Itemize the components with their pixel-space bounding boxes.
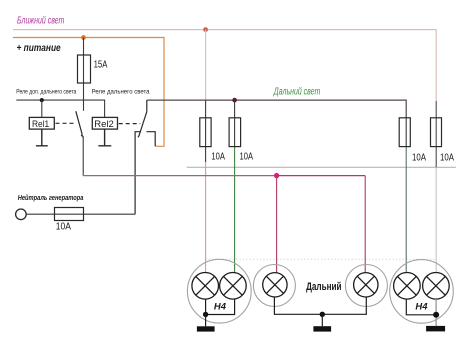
wire: supply bus + питание: [13, 38, 164, 147]
ground: right headlight: [426, 326, 445, 332]
node: low-beam tap: [203, 27, 208, 32]
svg-text:10A: 10A: [440, 152, 454, 163]
wire: light grey to right headlight low-beam: [435, 167, 437, 272]
relay Rel2: [92, 117, 117, 129]
wire: relay coil bus: [16, 100, 104, 117]
svg-text:Нейтраль генератора: Нейтраль генератора: [18, 193, 84, 202]
svg-text:+ питание: + питание: [17, 43, 62, 54]
svg-text:10A: 10A: [240, 151, 254, 162]
wire: low-beam drop to fuse F2: [205, 30, 207, 100]
fuse F6 10A horizontal: [55, 208, 84, 221]
node: aux lamp tap: [274, 173, 279, 178]
terminal: generator neutral: [16, 209, 27, 220]
switch S2 top contact: [146, 100, 148, 112]
svg-text:Rel1: Rel1: [32, 119, 49, 130]
wire: coil feed Rel1: [41, 100, 43, 117]
svg-text:15A: 15A: [94, 59, 108, 70]
right headlight housing: [390, 260, 454, 324]
wire: grey rail: [187, 166, 456, 168]
ground: left headlight: [197, 315, 215, 332]
wire: fused high-beam rail: [83, 175, 276, 177]
lamp: right high-beam filament: [394, 273, 421, 300]
wire: dotted lamp tie line: [206, 258, 437, 260]
svg-text:Реле доп. дальнего света: Реле доп. дальнего света: [16, 89, 76, 96]
wire: fuse F2 lead: [205, 100, 207, 162]
ground: Rel2 coil: [98, 129, 111, 146]
node: high-beam bus tap: [232, 98, 237, 103]
wire: low-beam bus Ближний свет: [13, 30, 436, 101]
fuse F4 10A: [399, 118, 410, 147]
node: aux ground tap: [320, 312, 325, 317]
node: left headlight ground tap: [203, 312, 208, 317]
wire: supply to fuse F1 and switch S1 top contact: [83, 38, 85, 111]
wire: aux lamps common: [274, 297, 366, 314]
node: right headlight ground tap: [433, 312, 439, 318]
relay Rel1: [29, 117, 54, 129]
ground: aux lamps: [313, 314, 331, 331]
switch S2 left contact and leg to neutral: [135, 132, 141, 215]
wire: S1 output: [82, 137, 84, 176]
svg-text:Дальний свет: Дальний свет: [273, 86, 320, 97]
svg-text:10A: 10A: [211, 151, 225, 162]
wire: right headlight common: [406, 299, 436, 315]
svg-text:H4: H4: [415, 302, 428, 313]
svg-text:10A: 10A: [412, 152, 426, 163]
fuse F3 10A: [229, 118, 241, 147]
lamp: aux right high-beam: [354, 273, 378, 297]
wire: neutral line: [26, 213, 135, 215]
ground: Rel1 coil: [36, 129, 48, 146]
lamp: aux left high-beam: [263, 273, 287, 297]
wire: right lamp to ground tap: [435, 299, 437, 326]
lamp: left high-beam filament: [220, 273, 247, 300]
wire: left headlight common: [206, 299, 235, 314]
wire: lead to fuse F5: [435, 101, 437, 167]
fuse F1 15A: [78, 55, 91, 83]
dashed link Rel1 to S1: [56, 122, 76, 124]
svg-text:H4: H4: [214, 301, 227, 312]
fuse F5 10A: [431, 118, 442, 147]
aux lamp left housing: [253, 265, 295, 307]
node: supply tap: [81, 35, 86, 40]
wire: grey-green to right headlight high-beam: [405, 147, 407, 273]
svg-text:Rel2: Rel2: [94, 119, 114, 130]
wire: high-beam bus Дальний свет: [147, 100, 406, 118]
left headlight housing: [187, 259, 251, 323]
wire: lead to fuse F4: [405, 118, 407, 147]
aux lamp right housing: [345, 265, 387, 307]
switch S1 blade: [76, 111, 83, 138]
switch S2 blade: [138, 112, 147, 138]
wire: to aux lamp right: [364, 176, 366, 273]
lamp: left low-beam filament: [192, 273, 219, 300]
wire: green wire to left headlight high-beam: [234, 147, 236, 273]
wire: rose wire to left headlight low-beam: [205, 162, 207, 273]
svg-text:Дальний: Дальний: [306, 281, 341, 293]
svg-text:Реле дальнего света: Реле дальнего света: [92, 89, 150, 96]
wire: lead to fuse F3: [234, 100, 236, 147]
svg-text:Ближний свет: Ближний свет: [17, 16, 64, 27]
fuse F2 10A: [200, 118, 211, 147]
wire: to aux lamp left: [276, 176, 278, 273]
switch S2 right contact leg: [147, 132, 156, 147]
dashed link Rel2 to S2: [119, 123, 141, 125]
svg-text:10A: 10A: [56, 220, 71, 232]
node: coil bus tap Rel1: [40, 98, 44, 102]
lamp: right low-beam filament: [423, 273, 450, 300]
